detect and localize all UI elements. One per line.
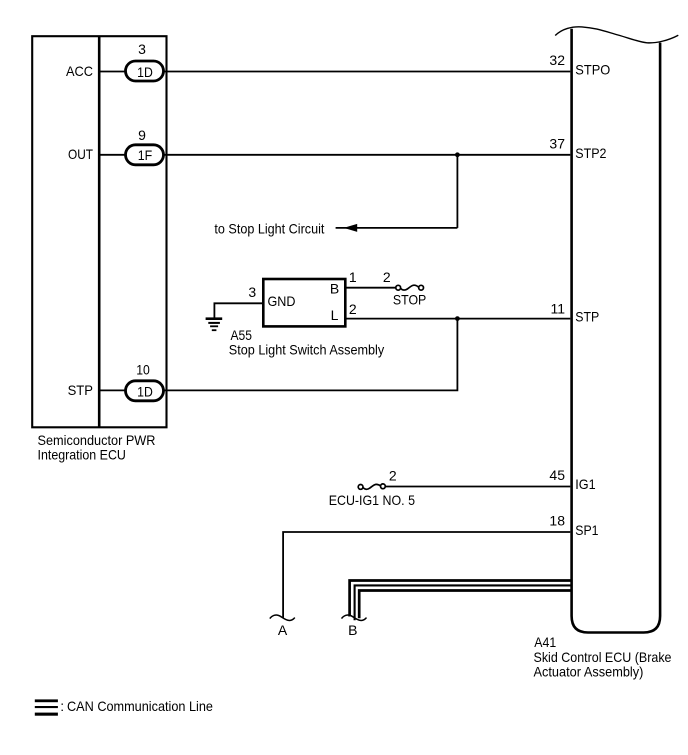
right block A41 (Skid Control ECU) — [572, 29, 661, 633]
wire branch down from STP2 junction — [456, 155, 458, 228]
svg-text:3: 3 — [138, 41, 146, 57]
stop light switch assembly box A55 — [263, 279, 345, 326]
svg-text:1F: 1F — [138, 147, 153, 163]
switch STOP — [396, 285, 424, 290]
svg-text:2: 2 — [349, 301, 357, 317]
junction dot on STP wire — [455, 316, 460, 321]
break symbol B (wavy) — [342, 615, 367, 620]
svg-text:A41: A41 — [534, 634, 556, 650]
connector oval 1D (pin 10) — [126, 381, 164, 401]
svg-text:32: 32 — [549, 52, 565, 68]
svg-text:18: 18 — [549, 513, 565, 529]
legend: CAN communication line symbol — [35, 699, 58, 715]
svg-text:45: 45 — [549, 467, 565, 483]
wire B pin to STOP switch — [346, 287, 396, 289]
svg-text:3: 3 — [248, 284, 256, 300]
svg-text:SP1: SP1 — [575, 522, 598, 538]
switch ECU-IG1 NO. 5 — [358, 484, 385, 489]
CAN communication line (triple) middle — [355, 585, 571, 620]
svg-text:Stop Light Switch Assembly: Stop Light Switch Assembly — [229, 341, 384, 357]
label: Skid Control ECU (Brake Actuator Assembly) — [534, 649, 672, 680]
svg-text:1D: 1D — [137, 383, 153, 399]
label: Semiconductor PWR Integration ECU — [38, 432, 156, 463]
wire OUT row to STP2 — [100, 154, 570, 156]
ground wire — [214, 303, 262, 317]
svg-text:IG1: IG1 — [575, 476, 596, 492]
wire ACC row to STPO — [100, 71, 570, 73]
connector oval 1F (pin 9) — [126, 145, 164, 165]
svg-text:GND: GND — [268, 293, 296, 309]
svg-text:2: 2 — [383, 269, 391, 285]
svg-text:STP: STP — [575, 309, 599, 325]
svg-text:CAN Communication Line: CAN Communication Line — [67, 698, 213, 714]
connector oval 1D (pin 3) — [126, 61, 164, 81]
wire L pin to STP — [346, 318, 570, 320]
svg-text::: : — [60, 698, 64, 714]
svg-text:B: B — [330, 280, 339, 296]
svg-text:STP2: STP2 — [575, 145, 606, 161]
svg-text:Actuator Assembly): Actuator Assembly) — [534, 664, 644, 680]
svg-text:STPO: STPO — [575, 62, 610, 78]
svg-text:2: 2 — [389, 467, 397, 483]
svg-text:STP: STP — [68, 382, 93, 398]
arrowhead to stop light circuit — [344, 224, 358, 232]
ground symbol — [206, 317, 223, 331]
svg-text:Semiconductor PWR: Semiconductor PWR — [38, 432, 156, 448]
svg-text:OUT: OUT — [68, 146, 93, 162]
wavy top of A41 block — [555, 27, 678, 43]
CAN communication line (triple) outer — [350, 581, 571, 617]
svg-text:9: 9 — [138, 127, 146, 143]
svg-text:11: 11 — [550, 300, 565, 316]
ECU block: Semiconductor PWR Integration ECU — [32, 36, 166, 427]
break symbol A (wavy) — [270, 615, 295, 620]
junction dot on STP2 wire — [455, 152, 460, 157]
svg-text:37: 37 — [549, 136, 565, 152]
svg-text:L: L — [331, 307, 339, 323]
wire ECU-IG1 to IG1 — [385, 486, 570, 488]
wire STP row (from 1D to riser) — [100, 319, 457, 391]
CAN communication line (triple) inner — [359, 591, 571, 619]
svg-text:STOP: STOP — [393, 292, 426, 308]
svg-text:1: 1 — [349, 269, 357, 285]
svg-text:Integration ECU: Integration ECU — [38, 447, 126, 463]
svg-text:Skid Control ECU (Brake: Skid Control ECU (Brake — [534, 649, 672, 665]
svg-text:to Stop Light Circuit: to Stop Light Circuit — [214, 220, 324, 236]
svg-text:ECU-IG1 NO. 5: ECU-IG1 NO. 5 — [329, 492, 415, 508]
svg-text:B: B — [348, 622, 357, 638]
wire to stop light circuit — [336, 227, 458, 229]
svg-text:ACC: ACC — [66, 63, 93, 79]
svg-text:10: 10 — [136, 361, 150, 377]
wire SP1 to break A — [283, 532, 570, 618]
svg-text:A: A — [278, 622, 288, 638]
svg-text:1D: 1D — [137, 64, 153, 80]
